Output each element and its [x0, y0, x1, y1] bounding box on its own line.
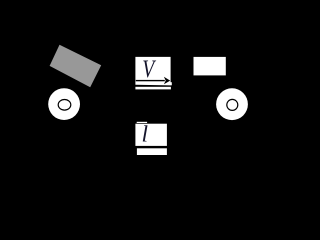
l label box	[135, 124, 167, 146]
V label box	[135, 57, 170, 86]
tilted gray block	[50, 45, 102, 87]
left wheel	[48, 88, 80, 120]
V label lower strip	[135, 87, 171, 90]
l label lower strip	[137, 148, 167, 155]
right wheel	[216, 88, 248, 120]
velocity arrow shaft	[136, 80, 165, 81]
empty white rectangle	[194, 57, 226, 76]
velocity arrowhead	[164, 77, 170, 85]
svg-text:l: l	[142, 121, 149, 147]
tick above l box	[137, 122, 147, 123]
left wheel hub	[58, 100, 71, 111]
white nub right of V box	[170, 82, 171, 85]
right wheel hub	[227, 99, 238, 110]
